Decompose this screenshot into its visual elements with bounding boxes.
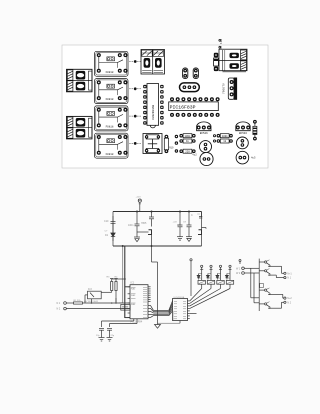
wire Vcc drop to IC1 <box>123 246 125 318</box>
junction dots on bottom rail <box>122 245 153 247</box>
resistor R2 1k <box>179 139 195 143</box>
ground (C13) <box>186 237 192 242</box>
svg-text:ULN2803AN: ULN2803AN <box>152 105 155 120</box>
IC2 pin stubs <box>188 301 190 319</box>
svg-text:F0818: F0818 <box>106 98 114 101</box>
diode D5 (flyback) <box>216 274 221 280</box>
relay K2 <box>95 79 129 104</box>
resistor R5 1k <box>217 139 233 143</box>
ground (C16) <box>107 338 113 342</box>
wire input N2 to IC1 <box>66 308 130 310</box>
IC U3 ULN2803AN <box>143 84 163 128</box>
svg-text:10u: 10u <box>177 224 182 227</box>
power flag K3 <box>219 265 222 273</box>
svg-text:4u2: 4u2 <box>192 153 197 156</box>
capacitor C15 <box>99 328 104 337</box>
capacitor C14 (right corner) <box>197 212 202 219</box>
resonator Q5 (3-pin) <box>180 83 200 92</box>
wire IC1 to crystal caps <box>102 319 138 327</box>
wire right rail vertical <box>201 212 203 247</box>
wire pullup join <box>115 298 117 303</box>
svg-text:100n: 100n <box>128 224 134 227</box>
IC2 internal text marks <box>174 301 186 319</box>
terminal block X3 (2-pos, top centre) <box>141 50 165 75</box>
optocoupler U4 <box>85 291 112 303</box>
diode D2 (left) <box>111 229 115 241</box>
relay K4 <box>95 133 129 158</box>
capacitor C3 4u7 <box>200 141 212 153</box>
power flag K1 <box>200 265 203 273</box>
svg-text:F0818: F0818 <box>106 71 114 74</box>
crystal X1 (PCB) <box>143 134 162 154</box>
capacitor C5 <box>183 68 188 78</box>
capacitor C10 (polarised, left) <box>111 216 116 229</box>
wire +5V out (right) <box>202 228 207 229</box>
svg-text:N 2: N 2 <box>57 308 61 311</box>
relay K1 <box>95 51 129 76</box>
relay coil K4 (schematic) <box>226 273 233 284</box>
resistor R6 (vertical right) <box>253 120 257 141</box>
relay coil K2 (schematic) <box>207 273 214 284</box>
resistor R10 (vertical) <box>164 135 174 153</box>
svg-text:PIC16F83P: PIC16F83P <box>170 105 196 111</box>
IC1 right pin stubs (port B) <box>148 287 151 302</box>
svg-text:W 2: W 2 <box>236 272 241 275</box>
capacitor C7 <box>237 137 249 149</box>
junction dots on top rail <box>136 211 190 213</box>
svg-text:100k: 100k <box>184 135 191 138</box>
regulator IC3 (corner symbol) <box>137 212 154 247</box>
regulator U1 7805TV <box>223 78 238 100</box>
wire bus IC1 to IC2 <box>148 301 173 318</box>
transistor Q2 BC546 <box>236 122 250 135</box>
relay contact S3 <box>259 288 286 299</box>
wire U4 output to N1 net <box>91 299 93 304</box>
capacitor C8 <box>236 151 249 164</box>
ground (C12) <box>177 237 183 240</box>
svg-text:N 2: N 2 <box>287 301 291 304</box>
resistor R13 (pullup) <box>114 279 117 304</box>
via node right of relay K2 <box>129 87 141 90</box>
capacitor C12 <box>178 212 183 237</box>
via node right of relay K3 <box>129 115 141 118</box>
resistor R11 (input series) <box>66 302 130 304</box>
terminal block X4 (2-pos, top right) <box>219 49 247 72</box>
wire top power rail <box>113 211 202 213</box>
wire drop to ground (mid) <box>152 246 158 323</box>
resistor R3 220 <box>179 149 195 153</box>
wire left rail vertical <box>112 212 114 247</box>
IC IC1 PIC16F84 <box>130 285 148 319</box>
relay K3 <box>95 106 129 131</box>
connector contact common 2 <box>242 272 245 275</box>
link pads <box>213 134 216 142</box>
junction box on bus <box>260 284 264 288</box>
wire pullups to Vcc <box>112 278 125 280</box>
capacitor C4 <box>200 152 213 165</box>
svg-text:220: 220 <box>185 150 190 153</box>
wire Vcc to pin14 <box>125 287 130 318</box>
via node right of relay K4 <box>129 142 141 145</box>
svg-text:BC546: BC546 <box>239 132 247 135</box>
relay contact S1 <box>259 260 286 275</box>
relay contact S4 <box>259 301 286 308</box>
svg-text:N+2: N+2 <box>287 297 292 300</box>
junction dots input net <box>111 278 126 304</box>
svg-text:+12V: +12V <box>136 197 142 199</box>
svg-text:W 1: W 1 <box>236 267 241 270</box>
power flag K4 <box>229 265 232 273</box>
svg-text:C: C <box>191 214 193 217</box>
svg-text:ULN2803A: ULN2803A <box>174 296 185 299</box>
svg-text:7805TV: 7805TV <box>223 83 226 94</box>
ground (C15) <box>99 338 105 342</box>
svg-text:IC3: IC3 <box>88 288 92 291</box>
crystal X1 (schematic) <box>121 305 130 311</box>
power flag K2 <box>210 265 213 273</box>
diode D4 (flyback) <box>206 274 211 280</box>
transistor Q1 BC546 <box>197 122 211 135</box>
svg-text:ULN2803: ULN2803 <box>173 310 175 320</box>
connector contact common 1 <box>242 267 245 270</box>
relay coil K1 (schematic) <box>198 273 205 284</box>
wire fan IC2 outputs to coils <box>190 284 230 313</box>
svg-text:C2 10u: C2 10u <box>220 38 223 49</box>
ground (below IC1) <box>155 323 161 328</box>
svg-text:100k: 100k <box>222 135 229 138</box>
capacitor C6 <box>193 68 198 78</box>
wire IC2 ground <box>158 321 181 324</box>
capacitor C2 (label) <box>219 38 223 49</box>
resistor R12 (pullup) <box>110 279 113 293</box>
wire contact bus vertical <box>258 259 260 311</box>
capacitor C16 <box>107 328 112 337</box>
power flag coil supply <box>190 259 192 296</box>
resistor R1 100k <box>179 134 195 138</box>
svg-text:N 1: N 1 <box>287 277 291 280</box>
svg-text:4u5: 4u5 <box>251 157 256 160</box>
relay coil K3 (schematic) <box>217 273 224 284</box>
svg-text:C10: C10 <box>104 220 109 223</box>
svg-text:F0818: F0818 <box>106 153 114 156</box>
svg-text:BC546: BC546 <box>200 132 208 135</box>
IC U2 PIC16F83P <box>169 97 220 117</box>
connector input N2 <box>64 307 67 310</box>
svg-text:N+1: N+1 <box>287 272 292 275</box>
power flag contacts <box>239 260 241 265</box>
diode D6 (flyback) <box>225 274 230 280</box>
svg-text:1k: 1k <box>223 140 227 143</box>
svg-text:1k: 1k <box>186 140 190 143</box>
resistor R4 100k <box>217 134 233 138</box>
capacitor C11 <box>135 212 140 238</box>
IC1 left pin stubs <box>128 287 130 318</box>
diode D3 (flyback) <box>197 274 202 280</box>
terminal block X1 (2-pos, left) <box>67 69 93 92</box>
svg-text:R1 22k: R1 22k <box>74 300 82 302</box>
via node right of relay K1 <box>129 60 141 63</box>
connector input N1 <box>64 302 67 305</box>
header pads J1 <box>175 135 178 153</box>
svg-text:R10: R10 <box>169 147 174 150</box>
svg-text:N 1: N 1 <box>57 302 61 305</box>
IC1 pin name text marks <box>131 287 147 317</box>
diode D1 <box>214 53 219 71</box>
ground (power mid) <box>134 237 140 242</box>
svg-text:IC1: IC1 <box>131 282 135 285</box>
wire bottom power rail <box>113 245 202 247</box>
PCB board outline <box>62 45 268 168</box>
IC IC2 ULN2803 <box>173 299 188 321</box>
svg-text:7805: 7805 <box>141 222 147 225</box>
capacitor C13 <box>187 212 192 237</box>
svg-text:F0818: F0818 <box>106 126 114 129</box>
terminal block X2 (2-pos, left) <box>67 116 93 138</box>
transistor symbol (right corner) <box>198 230 202 235</box>
power flag +12V (top) <box>138 199 141 212</box>
relay contact S2 <box>259 269 286 279</box>
wire commons to bus <box>244 268 259 303</box>
